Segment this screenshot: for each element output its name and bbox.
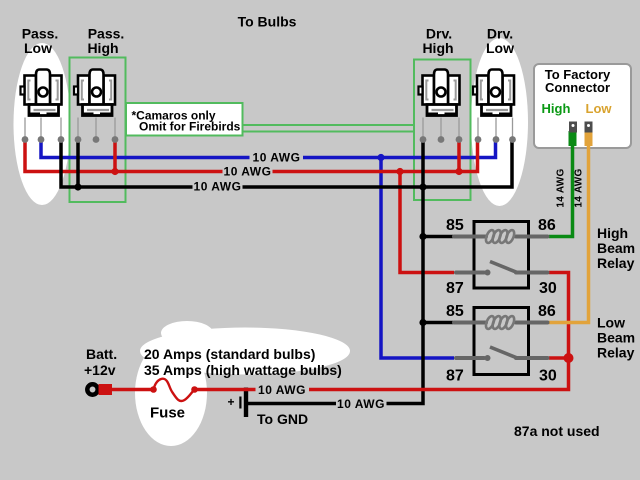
- svg-text:30: 30: [539, 280, 557, 297]
- svg-text:Omit for Firebirds: Omit for Firebirds: [139, 120, 241, 134]
- svg-text:10 AWG: 10 AWG: [337, 397, 385, 411]
- svg-text:35 Amps (high wattage bulbs): 35 Amps (high wattage bulbs): [144, 362, 342, 378]
- svg-text:High: High: [597, 225, 628, 241]
- svg-text:Fuse: Fuse: [150, 405, 185, 422]
- svg-text:30: 30: [539, 368, 557, 385]
- svg-text:+: +: [228, 395, 235, 409]
- svg-text:Beam: Beam: [597, 330, 635, 346]
- svg-text:To GND: To GND: [257, 411, 308, 427]
- svg-text:Batt.: Batt.: [86, 346, 117, 362]
- svg-text:Relay: Relay: [597, 255, 635, 271]
- svg-text:87a not used: 87a not used: [514, 423, 600, 439]
- svg-text:High: High: [422, 40, 453, 56]
- svg-text:Beam: Beam: [597, 240, 635, 256]
- svg-text:High: High: [542, 101, 571, 116]
- svg-text:Low: Low: [486, 40, 514, 56]
- svg-text:86: 86: [538, 303, 556, 320]
- svg-text:85: 85: [446, 303, 464, 320]
- svg-text:87: 87: [446, 280, 464, 297]
- svg-text:14 AWG: 14 AWG: [556, 168, 567, 207]
- svg-text:85: 85: [446, 217, 464, 234]
- svg-text:Low: Low: [597, 315, 625, 331]
- svg-text:10 AWG: 10 AWG: [253, 151, 301, 165]
- svg-text:20 Amps (standard bulbs): 20 Amps (standard bulbs): [144, 346, 315, 362]
- svg-text:Connector: Connector: [545, 80, 610, 95]
- svg-text:Low: Low: [24, 40, 52, 56]
- svg-text:To Bulbs: To Bulbs: [238, 14, 297, 30]
- svg-text:Relay: Relay: [597, 345, 635, 361]
- svg-text:14 AWG: 14 AWG: [574, 168, 585, 207]
- svg-text:86: 86: [538, 217, 556, 234]
- svg-text:87: 87: [446, 368, 464, 385]
- svg-text:10 AWG: 10 AWG: [224, 165, 272, 179]
- svg-text:10 AWG: 10 AWG: [194, 180, 242, 194]
- svg-text:Low: Low: [586, 101, 613, 116]
- svg-text:High: High: [87, 40, 118, 56]
- svg-text:10 AWG: 10 AWG: [258, 383, 306, 397]
- svg-text:+12v: +12v: [84, 362, 116, 378]
